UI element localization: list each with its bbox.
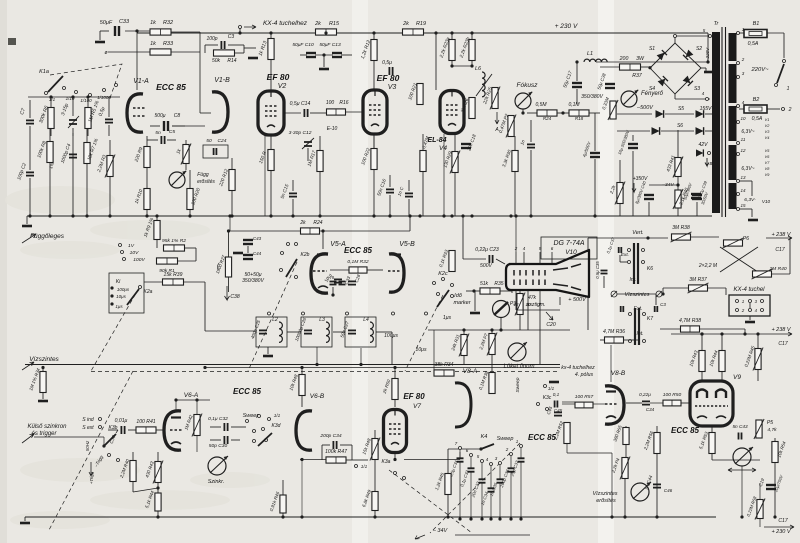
capacitor C30 0.01u (121, 426, 124, 434)
KX4 pin 2 (736, 309, 739, 312)
capacitor C30b 50p (224, 436, 227, 444)
wire sweep cap 5 down (481, 483, 483, 519)
wire 1k bottom (185, 164, 187, 170)
svg-text:Int.: Int. (636, 331, 643, 337)
resistor R18 0.1M (569, 110, 589, 116)
wire R53 bottom (711, 453, 713, 460)
wire 50p right (231, 439, 240, 441)
wire 5.1k bottom (157, 511, 159, 517)
wire C4 column (72, 133, 74, 216)
svg-text:C46: C46 (664, 488, 673, 493)
wire R35 right (500, 290, 512, 292)
inductor L6 (482, 72, 485, 97)
wire KX-4 down (239, 28, 241, 33)
contact sweep 6 (470, 454, 473, 457)
svg-text:és trigger: és trigger (31, 431, 57, 437)
switch K1a contact (89, 94, 92, 97)
svg-text:V1-B: V1-B (214, 77, 230, 84)
wire 24k top (463, 330, 465, 334)
svg-text:Int.: Int. (629, 277, 636, 283)
switch K1a contact (75, 91, 78, 94)
junction tank3 (359, 363, 362, 366)
junction R24b feed (408, 214, 411, 217)
junction V5A cathode (331, 293, 334, 296)
transformer K7 (635, 308, 639, 345)
wire bridge top to Tr (675, 35, 710, 37)
transformer tap 3 (737, 76, 740, 79)
tube V9 grid dashes (695, 405, 728, 407)
capacitor C9 0.5u (105, 119, 113, 122)
svg-text:1V: 1V (128, 243, 135, 249)
wire R58 bottom (759, 519, 761, 527)
svg-text:kx-4 tuchelhez: kx-4 tuchelhez (561, 365, 595, 371)
wire C39 down (696, 202, 698, 216)
svg-text:V5-B: V5-B (399, 241, 415, 248)
svg-text:50μF: 50μF (100, 20, 113, 26)
svg-text:V4: V4 (439, 145, 447, 152)
switch K2c arm (437, 290, 449, 307)
svg-text:R24: R24 (543, 116, 552, 121)
wire R6 top (50, 97, 52, 107)
transformer tap 10 (737, 121, 740, 124)
svg-text:DG 7-74A: DG 7-74A (553, 240, 584, 247)
junction R27 top (227, 229, 230, 232)
junction pin2 feed (514, 214, 517, 217)
junction (740, 515, 743, 518)
potentiometer R41 433 (673, 157, 683, 178)
wire 3M right (708, 287, 726, 289)
wire 3M drop (662, 288, 664, 294)
transformer tap 1 (737, 32, 740, 35)
svg-text:2M R40: 2M R40 (768, 266, 786, 272)
capacitor C8 500u (164, 121, 168, 131)
wire trimmer bottom (72, 128, 74, 136)
switch K3d arm (258, 433, 272, 446)
junction (490, 328, 493, 331)
junction (322, 53, 325, 56)
tube V5-B plate bar (390, 253, 401, 255)
svg-text:B: B (709, 161, 712, 166)
svg-text:Szinkr.: Szinkr. (208, 479, 225, 485)
svg-text:Löket finom: Löket finom (503, 364, 534, 370)
wire 10k top (301, 368, 303, 376)
wire K3c to R51 (562, 401, 575, 403)
svg-text:6,3V-: 6,3V- (744, 197, 756, 203)
svg-text:200p C34: 200p C34 (319, 433, 341, 439)
svg-text:11: 11 (741, 137, 746, 142)
svg-text:R35: R35 (494, 281, 503, 287)
transformer Tr secondary winding 4-10 (729, 106, 737, 141)
wire tank3 out (376, 331, 392, 333)
tube V1-A ECC85 half (127, 94, 143, 132)
ground C48 (233, 252, 243, 255)
potentiometer R45 0.22M (753, 348, 763, 371)
wire R47 right stub (346, 459, 352, 461)
svg-text:155V~: 155V~ (700, 106, 715, 112)
resistor R15 2k (316, 29, 337, 35)
capacitor 1u V5 (330, 282, 337, 285)
CRT gun electrodes (514, 270, 545, 285)
node focus (561, 111, 564, 114)
wire bridge bottom (674, 94, 676, 99)
svg-text:R32: R32 (163, 20, 173, 26)
wire -34V row (649, 184, 678, 186)
wire C32 right (231, 426, 246, 428)
junction (646, 236, 649, 239)
contact 100us (110, 286, 113, 289)
capacitor C33 50uF (115, 26, 119, 36)
svg-text:ECC 85: ECC 85 (671, 426, 700, 435)
potentiometer P3 circle (493, 301, 510, 318)
wire R57 to V8B (593, 403, 605, 405)
svg-text:2: 2 (741, 57, 745, 62)
resistor R7 10k (84, 143, 90, 164)
ground marker (470, 312, 480, 315)
arrow +230V bottom (764, 525, 794, 529)
wire sweep out down (611, 453, 613, 517)
capacitor C2 100p (26, 172, 34, 175)
junction bus x511 (509, 214, 512, 217)
resistor R47 100k (326, 457, 346, 463)
capacitor 0,5μ C31 (457, 458, 464, 461)
wire C34-R47 r (351, 445, 353, 460)
wire R56 top (656, 426, 658, 433)
capacitor C33b (339, 282, 346, 285)
svg-text:C3: C3 (660, 302, 666, 307)
svg-text:K2a: K2a (144, 289, 153, 295)
svg-text:ø: ø (104, 50, 107, 56)
switch K4 arm (481, 444, 494, 449)
potentiometer Fokusz (515, 92, 532, 109)
wire C2 bottom (29, 178, 31, 216)
capacitor 0,1μ C32 (468, 468, 475, 471)
wire C37b to K5 (620, 261, 627, 263)
wire V6-A plate drop (175, 400, 177, 410)
svg-text:R16: R16 (339, 100, 348, 106)
svg-text:S5: S5 (678, 106, 684, 112)
junction V6-A plate (174, 398, 177, 401)
wire R8 column (49, 129, 51, 216)
junction bus x420 (418, 214, 421, 217)
junction R44 top (720, 332, 723, 335)
x (620, 215, 697, 217)
CRT deflection plates (553, 264, 581, 290)
switch mains arm (777, 64, 784, 83)
capacitor C45 (554, 412, 562, 415)
junction (300, 515, 303, 518)
transformer K5 (634, 243, 638, 284)
resistor 0.1M R36b (489, 373, 495, 394)
svg-text:–500V: –500V (636, 105, 654, 111)
wire sweep cap 2 down (510, 472, 512, 519)
capacitor C16 50n (386, 189, 394, 192)
capacitor 4u500V (590, 153, 600, 157)
wire 1n bottom (408, 199, 410, 216)
wire horizontal bus lower (205, 367, 560, 369)
paper left edge shading (0, 0, 7, 543)
svg-text:R24: R24 (313, 220, 322, 226)
resistor R27 1500 (225, 257, 231, 277)
capacitor 25p C37 (518, 458, 525, 461)
wire tap13 down (751, 181, 753, 196)
wire R17 bottom (319, 172, 321, 216)
wire K3b to C30 (116, 430, 118, 433)
resistor R49 6.8k (372, 492, 378, 511)
arrows left-right (728, 468, 756, 472)
svg-text:EF 80: EF 80 (267, 72, 290, 82)
svg-text:3-30p C12: 3-30p C12 (289, 130, 312, 136)
junction R43 top (700, 332, 703, 335)
wire S6 right (705, 130, 712, 132)
wire tank out down (391, 332, 393, 365)
svg-text:0,5A: 0,5A (752, 116, 763, 122)
arrow +350V (632, 183, 636, 192)
wire R6 bottom (50, 129, 52, 136)
wire C16 bottom (389, 195, 391, 216)
svg-text:0,5A: 0,5A (748, 41, 759, 47)
svg-text:V1-A: V1-A (133, 78, 149, 85)
svg-text:0,1: 0,1 (553, 392, 560, 397)
junction C17 L1 (575, 60, 578, 63)
wire R32 left lead (330, 269, 349, 271)
svg-text:10μs: 10μs (415, 347, 426, 353)
capacitor C44 5n (653, 484, 661, 487)
wire R27 column top (228, 231, 230, 257)
diode S5b (696, 110, 704, 118)
arrow Vizszintes input (22, 362, 34, 370)
wire V3 cathode down (373, 134, 375, 149)
wire 1nb top (530, 120, 532, 142)
wire R5 bottom (87, 129, 89, 136)
wire R44 bottom (721, 371, 723, 381)
node R35 (472, 289, 475, 292)
terminal bridge 5 (674, 35, 677, 38)
tube V5-A half (311, 254, 328, 293)
tube V5-A plate bar (317, 253, 328, 255)
tank box L2 (256, 317, 287, 347)
junction (593, 214, 596, 217)
wire P7 bottom (491, 355, 493, 373)
wire into KX4 (725, 288, 727, 295)
tank box L4 (345, 317, 376, 347)
transformer Tr primary winding (712, 32, 720, 213)
scan speck top-left (8, 38, 16, 45)
wire C45-R57 (562, 403, 575, 405)
wire 10k bottom (301, 396, 303, 407)
tube V6-B half (296, 411, 312, 450)
resistor R34b 38k (434, 370, 454, 376)
wire K4 left (448, 448, 480, 450)
junction (373, 515, 376, 518)
wire C8 left (150, 125, 160, 127)
svg-text:100 R57: 100 R57 (575, 394, 594, 400)
svg-text:L2: L2 (272, 317, 278, 323)
svg-text:0,5μ: 0,5μ (382, 60, 392, 66)
arrow Fuggoleges input (22, 234, 36, 243)
wire R36 left (600, 339, 605, 341)
wire R32 right (171, 31, 200, 33)
wire R47 to V7 (352, 459, 368, 461)
junction (470, 64, 473, 67)
bleed-through mottling lower left (10, 458, 270, 529)
svg-text:L3: L3 (319, 317, 325, 323)
wire R52b down (566, 444, 568, 453)
wire R54 bottom (774, 463, 776, 517)
tube V5-A grid dashes (313, 270, 327, 272)
wire R12 top (373, 33, 375, 39)
wire C33 left (100, 30, 109, 32)
wire tap15 (739, 208, 752, 210)
junction bus x73 (71, 214, 74, 217)
capacitor C13 50uF (332, 53, 342, 57)
resistor R57 100 (575, 402, 593, 408)
transformer tap 12 (737, 153, 740, 156)
wire C48-C49 (247, 246, 249, 253)
wire V1-A plate (136, 33, 138, 90)
potentiometer P7 2.2M (487, 333, 497, 356)
wire CRT plate up (587, 238, 589, 251)
svg-text:C24: C24 (218, 138, 227, 144)
svg-text:erősítés: erősítés (197, 179, 215, 185)
wire tank gnd (267, 347, 269, 354)
tube V8-B plate bar (606, 390, 616, 392)
potentiometer R43b 430 (153, 461, 163, 484)
node 238 lower (743, 332, 746, 335)
svg-text:V7: V7 (413, 403, 421, 410)
wire 4.7M right (700, 328, 745, 330)
wire R56 bottom (656, 453, 658, 517)
bleed-through mottling upper left (5, 186, 210, 259)
svg-text:ECC 85: ECC 85 (528, 433, 557, 442)
wire S5 right (705, 113, 712, 115)
input marker circle a (611, 291, 617, 297)
wire attenuator top (28, 96, 120, 98)
svg-text:+350V: +350V (633, 176, 648, 182)
resistor R23b 2.2k (469, 40, 475, 61)
svg-text:47k: 47k (528, 295, 537, 301)
svg-text:Vízszintes: Vízszintes (592, 491, 617, 497)
resistor 150 (268, 150, 274, 171)
wire C24 feed (229, 216, 231, 231)
wire R45 top (757, 334, 759, 349)
contact K3a b (403, 477, 406, 480)
contact sweep grid (246, 420, 249, 423)
wire R35 left (466, 290, 480, 292)
tube V6-A grid dashes (170, 429, 182, 431)
resistor R32b 0.1M (349, 267, 367, 273)
svg-text:R19: R19 (416, 21, 426, 27)
wire C32 left (210, 426, 221, 428)
wire L1 to transformer (596, 61, 708, 63)
svg-text:K3a: K3a (382, 459, 391, 465)
switch K2b contacts (281, 252, 284, 255)
junction bus 205 (203, 366, 206, 369)
contact K3a a (394, 472, 397, 475)
svg-text:R33: R33 (163, 41, 174, 47)
wire P7 top (491, 330, 493, 334)
wire C16 top (389, 175, 391, 187)
wire mid row (428, 329, 570, 331)
junction bus 302 (300, 366, 303, 369)
capacitor C28 (348, 281, 356, 284)
resistor R28 0.47M (420, 151, 426, 172)
capacitor C3b (655, 306, 658, 312)
svg-text:L4: L4 (363, 317, 369, 323)
potentiometer R37c 3M (688, 283, 709, 293)
K7 term a (629, 313, 632, 316)
wire R29 top (454, 134, 456, 152)
svg-text:10V: 10V (130, 250, 139, 256)
svg-text:B2: B2 (753, 97, 760, 103)
wire C42 top (632, 135, 634, 141)
potentiometer R48 15k (370, 438, 380, 461)
junction R42 (195, 398, 198, 401)
capacitor C3 100p (221, 41, 224, 49)
svg-text:4,7M R36: 4,7M R36 (603, 329, 625, 335)
wire C34 left (322, 444, 330, 446)
svg-text:P5: P5 (767, 420, 773, 426)
svg-text:E-10: E-10 (327, 126, 338, 132)
wire -500V row (617, 113, 652, 115)
switch K1a contact (115, 84, 118, 87)
wire gnd stub (26, 216, 28, 224)
svg-text:0,1M: 0,1M (568, 102, 580, 108)
wire R45 bottom (757, 369, 759, 381)
ground tanks (263, 355, 273, 358)
wire C33 to R32 (125, 30, 150, 32)
wire CRT pin7 down (539, 302, 541, 365)
potentiometer P1 0.33M (608, 100, 618, 120)
wire 430-5.1k (157, 483, 159, 493)
resistor R39 15k (163, 279, 184, 285)
capacitor C24 50 (214, 148, 217, 155)
switch K1a contact (45, 92, 48, 95)
junction sweep out (610, 515, 613, 518)
wire 2.2M join (133, 488, 158, 492)
wire tank12 (287, 331, 301, 333)
arrow C38b (225, 286, 230, 300)
wire dashed gang link K4 (430, 443, 520, 533)
contact sweep 4 (490, 463, 493, 466)
potentiometer 1k (181, 144, 191, 165)
junction sweep 6 (469, 517, 472, 520)
junction (446, 515, 449, 518)
junction sweep 7 (458, 517, 461, 520)
svg-text:V3: V3 (388, 84, 397, 91)
wire R24b left (230, 230, 300, 232)
tube V3 EF80 (363, 90, 387, 135)
capacitor C42 16u (628, 144, 638, 148)
wire R39 down (204, 282, 206, 331)
tube V8-B cathode arc (606, 416, 616, 418)
terminal KX-4 (239, 26, 242, 29)
fuse B2 body (744, 105, 767, 113)
wire to V3 plate (435, 33, 437, 90)
junction (700, 332, 703, 335)
wire C8 right (172, 125, 185, 127)
wire 15k top (374, 430, 376, 438)
x (325, 29, 327, 33)
wire tap1 to B1 (739, 32, 744, 34)
wire trigger input (34, 436, 104, 438)
KX4 pin 4 (761, 309, 764, 312)
wire 150 top (270, 136, 272, 150)
svg-text:1k: 1k (150, 41, 156, 47)
svg-text:3M R37: 3M R37 (689, 277, 707, 283)
wire -34V lead (455, 534, 530, 536)
capacitor Cext (621, 306, 624, 312)
wire 47k top (519, 291, 521, 293)
